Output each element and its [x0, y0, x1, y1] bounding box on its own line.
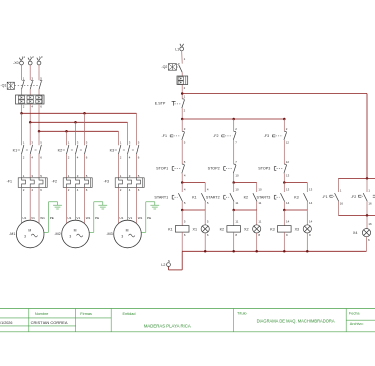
- wire parallel branch top: [284, 182, 307, 184]
- svg-text:PE: PE: [50, 216, 54, 220]
- svg-text:14: 14: [309, 201, 313, 205]
- svg-text:K2: K2: [220, 227, 225, 231]
- wire bus to F1 contact: [181, 119, 183, 131]
- overload F3 heater pole 1: [119, 178, 123, 188]
- svg-text:11: 11: [235, 219, 238, 223]
- wire Q1 pole 2 to trip unit: [29, 89, 31, 95]
- svg-text:START3: START3: [257, 195, 271, 199]
- wire Q1 pole 3 to bus L3: [38, 104, 40, 131]
- wire bus drop: [29, 122, 31, 145]
- wire to lamp X1: [204, 210, 206, 225]
- wire Q2 out: [181, 85, 183, 99]
- wire to coil K2: [233, 210, 235, 226]
- node parallel top: [283, 181, 286, 184]
- svg-text:U1: U1: [22, 216, 26, 220]
- motor M1: [16, 220, 44, 248]
- svg-text:12: 12: [286, 160, 290, 164]
- svg-text:V1: V1: [128, 216, 132, 220]
- wire M2 W1: [84, 187, 86, 223]
- svg-text:14: 14: [286, 201, 290, 205]
- svg-text:V1: V1: [31, 216, 35, 220]
- wire parallel branch top: [182, 182, 205, 184]
- ground M2: [102, 202, 104, 205]
- svg-text:START2: START2: [206, 195, 220, 199]
- svg-text:-F2: -F2: [213, 134, 218, 138]
- svg-text:-M1: -M1: [9, 232, 15, 236]
- wire E.STP to control bus: [181, 108, 183, 119]
- svg-text:K1: K1: [192, 195, 197, 199]
- wire bus drop: [21, 113, 23, 145]
- svg-text:-F2: -F2: [351, 195, 356, 199]
- wire L3 to breaker Q1: [38, 65, 40, 80]
- svg-text:12: 12: [286, 141, 290, 145]
- wire M2 V1: [75, 187, 77, 220]
- wire coil to neutral bus: [233, 232, 235, 251]
- bus L2: [30, 121, 127, 123]
- wire Q1 pole 2 to bus L2: [29, 104, 31, 122]
- svg-text:16: 16: [368, 222, 372, 226]
- motor M2: [62, 220, 90, 248]
- title block frame: [0, 308, 375, 310]
- svg-text:X3: X3: [295, 227, 300, 231]
- contactor K3 linkage: [115, 149, 117, 151]
- svg-text:-M3: -M3: [106, 232, 112, 236]
- breaker Q1 pole 1 blade: [22, 79, 24, 82]
- circuit breaker Q2 actuator box: [168, 64, 176, 70]
- wire to lamp X2: [256, 210, 258, 225]
- svg-text:K1: K1: [13, 149, 18, 153]
- wire Q1 pole 3 to trip unit: [38, 89, 40, 95]
- svg-text:Entidad: Entidad: [123, 312, 136, 316]
- thermal overload F3 box: [115, 178, 144, 188]
- svg-text:Título: Título: [237, 312, 247, 316]
- svg-text:M: M: [28, 229, 31, 233]
- svg-text:-M2: -M2: [54, 232, 60, 236]
- wire Q1 pole 1 to bus L1: [21, 104, 23, 113]
- svg-text:14: 14: [286, 219, 290, 223]
- svg-text:31/1/2026: 31/1/2026: [0, 321, 12, 325]
- wire parallel branch top: [234, 182, 257, 184]
- wire X4 to neutral bus: [366, 237, 368, 252]
- svg-text:W1: W1: [86, 216, 91, 220]
- wire K3 pole 1 to overload: [118, 154, 120, 178]
- breaker Q2 trip unit: [177, 76, 188, 85]
- contactor K1 linkage: [18, 149, 20, 151]
- bus L1: [22, 112, 137, 114]
- wire F2 to STOP2: [233, 140, 235, 164]
- svg-text:PE: PE: [147, 216, 151, 220]
- overload F2 heater pole 2: [76, 178, 80, 188]
- breaker Q1 thermal-magnetic trip unit: [16, 95, 45, 104]
- wire M3 V1: [127, 187, 129, 220]
- PE wire M3: [146, 201, 155, 203]
- svg-text:K3: K3: [270, 227, 275, 231]
- PE wire M1: [49, 201, 58, 203]
- svg-text:-F3: -F3: [264, 134, 269, 138]
- svg-text:X2: X2: [244, 227, 249, 231]
- thermal overload F1 box: [18, 178, 47, 188]
- wire STOP2 to parallel node: [233, 173, 235, 182]
- wire F3 to STOP3: [283, 140, 285, 164]
- overload F1 heater pole 3: [39, 178, 43, 188]
- breaker Q2 blade: [178, 63, 180, 66]
- wire M1 W1: [38, 187, 40, 223]
- wire bus drop: [66, 131, 68, 145]
- ground M1: [57, 202, 59, 205]
- wire bus drop: [75, 122, 77, 145]
- node parallel bottom: [283, 209, 286, 212]
- svg-text:3: 3: [121, 235, 123, 239]
- breaker Q1 pole 2 blade: [31, 79, 33, 82]
- wire coil to neutral bus: [283, 232, 285, 251]
- wire bus drop: [127, 122, 129, 145]
- svg-text:U1: U1: [67, 216, 71, 220]
- svg-text:V1: V1: [76, 216, 80, 220]
- svg-text:11: 11: [258, 219, 261, 223]
- contactor K2 linkage: [63, 149, 65, 151]
- overload F1 heater pole 2: [30, 178, 34, 188]
- wire bus to F2 contact: [233, 119, 235, 131]
- svg-text:K1: K1: [168, 227, 173, 231]
- svg-text:L1: L1: [175, 47, 179, 51]
- wire K2 pole 3 to overload: [84, 154, 86, 178]
- svg-text:K3: K3: [110, 149, 115, 153]
- svg-text:N: N: [168, 259, 170, 263]
- svg-text:10: 10: [235, 174, 239, 178]
- svg-text:-F1: -F1: [7, 179, 12, 183]
- ground M3: [154, 202, 156, 205]
- svg-text:16: 16: [340, 202, 344, 206]
- svg-text:-F1: -F1: [322, 195, 327, 199]
- wire feeder to alarm branch: [182, 93, 367, 95]
- svg-text:STOP2: STOP2: [208, 167, 220, 171]
- wire coil to neutral bus: [181, 232, 183, 251]
- circuit breaker Q1 actuator box: [7, 82, 14, 89]
- svg-text:E.STP: E.STP: [155, 102, 166, 106]
- overload F1 heater pole 1: [22, 178, 26, 188]
- wire bus drop: [84, 113, 86, 145]
- svg-text:MADERAS PLAYA RICA: MADERAS PLAYA RICA: [144, 324, 191, 329]
- breaker Q1 linkage: [15, 85, 39, 87]
- wire M2 U1: [66, 187, 68, 223]
- wire parallel branch bottom: [283, 202, 285, 211]
- control bus: [182, 118, 284, 120]
- svg-text:STOP1: STOP1: [156, 167, 168, 171]
- svg-text:3: 3: [69, 235, 71, 239]
- wire K1 pole 1 to overload: [21, 154, 23, 178]
- wire K1 pole 3 to overload: [38, 154, 40, 178]
- svg-text:16: 16: [368, 202, 372, 206]
- svg-text:3: 3: [24, 235, 26, 239]
- alarm contact -F3 NC clipped: [373, 194, 375, 196]
- wire Q1 pole 1 to trip unit: [21, 89, 23, 95]
- svg-text:M: M: [126, 229, 129, 233]
- breaker Q2 linkage: [177, 66, 181, 68]
- alarm parallel bottom bus: [338, 214, 375, 216]
- wire L1 to breaker Q1: [21, 65, 23, 80]
- svg-text:-Q1: -Q1: [0, 83, 6, 87]
- svg-text:13: 13: [309, 187, 313, 191]
- wire K2 pole 1 to overload: [66, 154, 68, 178]
- wire to lamp X4: [366, 215, 368, 228]
- svg-text:-F1: -F1: [162, 134, 167, 138]
- node parallel bottom: [232, 209, 235, 212]
- breaker Q1 pole 3 blade: [40, 79, 42, 82]
- terminal L2 neutral: [181, 251, 183, 270]
- wire L2 to breaker Q1: [29, 65, 31, 80]
- wire K3 pole 2 to overload: [127, 154, 129, 178]
- wire Q2 to trip unit: [181, 72, 183, 76]
- svg-text:PE: PE: [95, 216, 99, 220]
- svg-text:X4: X4: [353, 231, 358, 235]
- wire bus drop: [136, 113, 138, 145]
- overload F3 heater pole 3: [137, 178, 141, 188]
- svg-text:W1: W1: [40, 216, 45, 220]
- svg-text:14: 14: [309, 219, 313, 223]
- wire parallel branch bottom: [233, 202, 235, 211]
- svg-text:-F3: -F3: [104, 179, 109, 183]
- overload F2 heater pole 1: [67, 178, 71, 188]
- PE wire M2: [94, 201, 103, 203]
- thermal overload F2 box: [63, 178, 92, 188]
- svg-text:-F2: -F2: [52, 179, 57, 183]
- svg-text:START1: START1: [154, 195, 168, 199]
- wire to coil K1: [181, 210, 183, 226]
- wire lamp to neutral bus: [256, 233, 258, 251]
- svg-text:STOP3: STOP3: [258, 167, 270, 171]
- wire K3 pole 3 to overload: [136, 154, 138, 178]
- wire lamp to neutral bus: [306, 233, 308, 251]
- wire M1 V1: [29, 187, 31, 220]
- node parallel top: [232, 181, 235, 184]
- wire STOP1 to parallel node: [181, 173, 183, 182]
- svg-text:K2: K2: [244, 195, 249, 199]
- wire bus to F3 contact: [283, 119, 285, 131]
- svg-text:K3: K3: [294, 195, 299, 199]
- wire bus drop: [38, 131, 40, 145]
- svg-text:11: 11: [235, 201, 238, 205]
- svg-text:X1: X1: [192, 227, 197, 231]
- svg-text:U1: U1: [119, 216, 123, 220]
- svg-text:13: 13: [286, 187, 290, 191]
- wire F1 to STOP1: [181, 140, 183, 164]
- neutral bus: [182, 250, 366, 252]
- wire to coil K3: [283, 210, 285, 226]
- node parallel bottom: [181, 209, 184, 212]
- wire bus drop: [118, 131, 120, 145]
- svg-text:13: 13: [286, 174, 290, 178]
- svg-text:DIAGRAMA DE MAQ. MACHIMBRADORA: DIAGRAMA DE MAQ. MACHIMBRADORA: [257, 318, 335, 323]
- alarm parallel top bus: [338, 177, 375, 179]
- svg-text:K2: K2: [58, 149, 63, 153]
- overload F2 heater pole 3: [85, 178, 89, 188]
- svg-text:Nombre: Nombre: [35, 312, 49, 316]
- wire K1 pole 2 to overload: [29, 154, 31, 178]
- bus L3: [39, 130, 119, 132]
- svg-text:CRISTIAN CORREA: CRISTIAN CORREA: [31, 320, 68, 325]
- wire M1 U1: [21, 187, 23, 223]
- svg-text:-X0: -X0: [13, 61, 19, 65]
- node feeder top: [181, 92, 184, 95]
- svg-text:-Q2: -Q2: [161, 65, 167, 69]
- wire STOP3 to parallel node: [283, 173, 285, 182]
- svg-text:10: 10: [235, 187, 239, 191]
- motor M3: [114, 220, 142, 248]
- svg-text:Firmas: Firmas: [80, 312, 92, 316]
- node parallel top: [181, 181, 184, 184]
- wire L1 to Q2: [181, 51, 184, 64]
- wire parallel branch bottom: [181, 202, 183, 211]
- svg-text:10: 10: [258, 187, 262, 191]
- svg-text:Archivo:: Archivo:: [350, 322, 364, 326]
- svg-text:11: 11: [258, 201, 261, 205]
- overload F3 heater pole 2: [128, 178, 132, 188]
- svg-text:M: M: [74, 229, 77, 233]
- wire lamp to neutral bus: [204, 233, 206, 251]
- svg-text:L2: L2: [161, 263, 165, 267]
- svg-text:Fecha: Fecha: [349, 312, 360, 316]
- wire to lamp X3: [306, 210, 308, 225]
- wire K2 pole 2 to overload: [75, 154, 77, 178]
- svg-text:W1: W1: [138, 216, 143, 220]
- wire M3 W1: [136, 187, 138, 223]
- wire M3 U1: [118, 187, 120, 223]
